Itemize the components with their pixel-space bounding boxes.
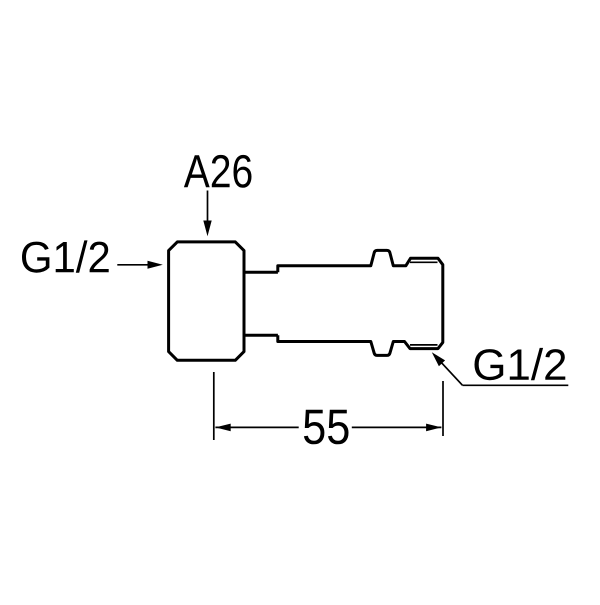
label G1/2 left xyxy=(22,240,109,272)
leader underline for G1/2 right xyxy=(463,384,569,386)
thread root line bottom xyxy=(410,344,438,346)
nut (G1/2 female end) xyxy=(169,242,244,360)
leader diagonal with arrow to threaded end xyxy=(441,362,463,385)
dimension text 55 xyxy=(304,410,349,445)
dimension line right segment with arrowhead xyxy=(352,426,442,428)
thread root line top xyxy=(410,261,438,263)
fitting main body with threaded end (silhouette) xyxy=(278,250,443,355)
leader arrow from G1/2 left to nut xyxy=(117,264,148,266)
dimension line left segment with arrowhead xyxy=(215,426,298,428)
dimension extension line right xyxy=(442,381,444,436)
label G1/2 right xyxy=(475,348,566,380)
dimension extension line left xyxy=(213,372,215,440)
neck between nut and body xyxy=(244,272,278,335)
leader arrow from A26 to nut xyxy=(207,191,209,223)
label A26 xyxy=(184,155,252,188)
